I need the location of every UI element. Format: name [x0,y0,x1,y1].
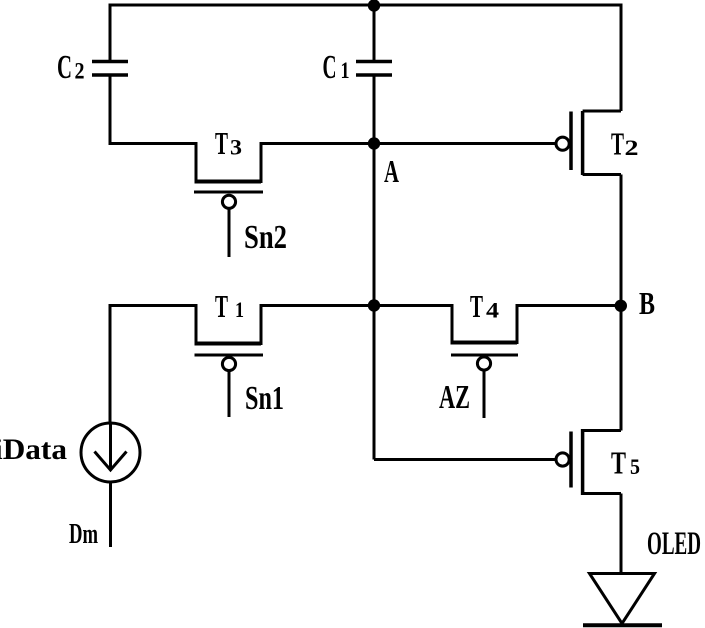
transistor T5 gate bar [569,432,573,488]
transistor T4 gate bubble [477,357,490,370]
svg-text:2: 2 [625,135,639,160]
transistor T1 gate bar [195,354,264,357]
current source arrow head [95,452,127,471]
transistor T3 source-drain channel [195,142,262,183]
capacitor C2 [92,62,128,76]
wire T4 gate lead AZ [483,370,486,418]
label T4 [470,288,499,324]
svg-text:A: A [384,153,399,189]
current source arrow shaft [109,424,112,469]
label C1 [323,49,350,86]
wire T5 source jog bottom [583,492,621,495]
transistor T4 gate bar [451,354,518,357]
transistor T4 source-drain channel [451,304,518,344]
svg-text:4: 4 [486,298,499,323]
svg-text:Dm: Dm [69,519,98,550]
junction node A [368,137,380,149]
junction node T1 row / center rail [368,299,380,311]
svg-text:iData: iData [0,433,67,466]
wire T3 to node A to T2 gate [260,142,557,145]
wire T5 source to OLED anode [620,494,623,574]
wire T5 gate row from center rail [374,458,556,461]
junction node B [615,300,627,312]
wire left rail below C2 [109,75,112,145]
transistor T2 gate bar [569,112,573,171]
wire T1 gate lead Sn1 [228,371,231,417]
wire T5 drain jog top [583,429,621,432]
svg-text:3: 3 [230,135,242,160]
transistor T2 gate bubble [556,137,569,150]
transistor T2 channel bar [581,111,585,175]
transistor T3 gate bubble [222,195,235,208]
svg-text:1: 1 [235,297,244,322]
transistor T5 channel bar [581,429,585,495]
transistor T5 gate bubble [556,453,569,466]
svg-text:5: 5 [630,454,640,479]
wire right rail (T2 to node B to T5) [620,175,623,431]
svg-text:T: T [611,125,624,161]
svg-text:C: C [57,49,72,86]
transistor T1 source-drain channel [195,304,262,345]
svg-text:OLED: OLED [647,526,701,562]
transistor T3 gate bar [194,191,263,194]
svg-text:T: T [470,288,483,324]
wire T3 gate lead Sn2 [228,208,231,257]
wire T3 row left [110,142,196,145]
wire T1 to node to T4 [260,304,453,307]
diode OLED triangle [590,574,655,624]
label T2 [611,125,639,161]
svg-text:1: 1 [341,58,350,83]
wire T4 to node B [516,304,622,307]
wire T2 drain jog top [583,110,621,113]
svg-text:2: 2 [75,59,85,84]
label C2 [57,49,85,86]
wire T1 row left from left rail [110,304,196,307]
wire center rail (C1 to node A to T1 row to T5 gate corner) [373,75,376,460]
svg-text:Sn1: Sn1 [245,380,284,417]
svg-text:T: T [611,445,626,481]
capacitor C1 [356,62,392,76]
svg-text:T: T [215,125,228,161]
wire T2 source jog bottom [583,173,621,176]
svg-text:AZ: AZ [439,379,470,416]
svg-text:B: B [639,285,655,321]
diode OLED cathode bar [583,623,662,627]
label T3 [215,125,242,161]
current source iData circle [81,423,140,482]
wire left rail down to current source [109,304,112,424]
wire top supply rail [110,4,621,7]
wire center rail upper (node top to C1) [373,4,376,62]
svg-text:Sn2: Sn2 [244,219,287,256]
wire current source to Dm terminal [109,482,112,547]
svg-text:T: T [215,288,228,324]
svg-text:C: C [323,49,337,86]
label T1 [215,288,244,324]
label T5 [611,445,640,481]
wire right rail upper (top rail to T2) [620,4,623,112]
transistor T1 gate bubble [222,357,235,370]
wire left rail upper segment [109,4,112,62]
junction node top rail / C1 [368,0,380,12]
